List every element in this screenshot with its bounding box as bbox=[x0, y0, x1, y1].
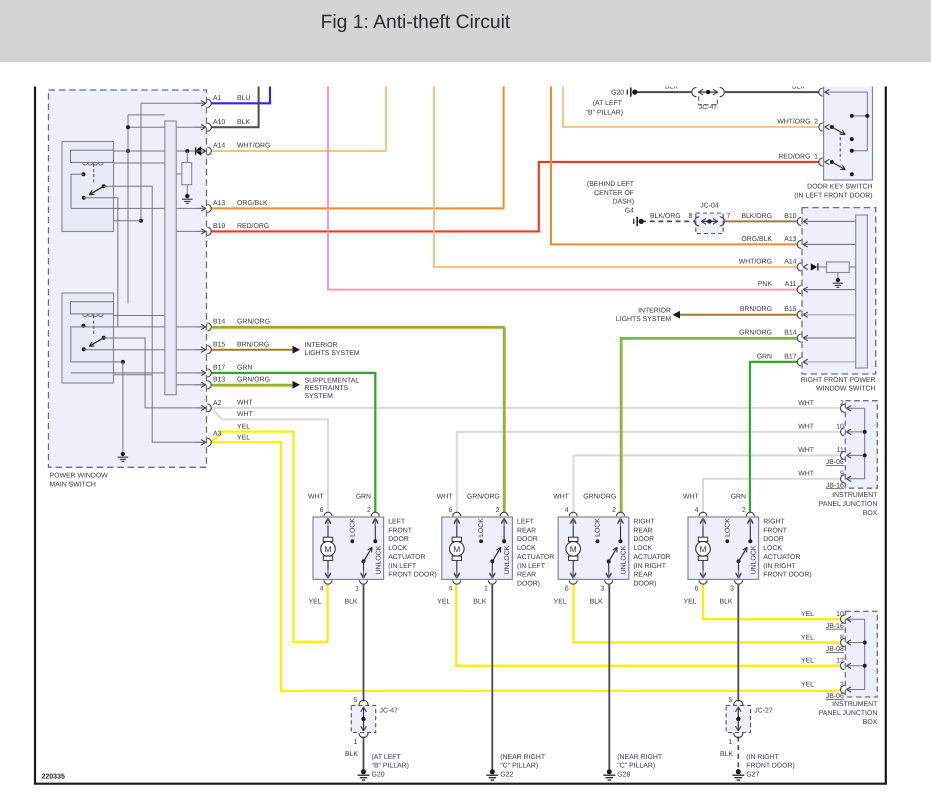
pin instrument panel junction box (upper) pin 10 bbox=[841, 428, 852, 436]
label wire YEL (A3 lower) bbox=[237, 434, 250, 441]
pin left front door lock actuator bottom right bbox=[360, 570, 368, 584]
motor M in left rear door lock actuator bbox=[450, 519, 465, 578]
labels pin A13 bbox=[741, 236, 796, 243]
svg-text:BRN/ORG: BRN/ORG bbox=[237, 341, 269, 348]
svg-text:REAR: REAR bbox=[633, 527, 652, 534]
pin right rear door lock actuator top right bbox=[617, 512, 625, 526]
label pin B19 bbox=[213, 223, 225, 230]
svg-text:A14: A14 bbox=[213, 143, 225, 150]
pin power window switch A14 bbox=[797, 263, 808, 271]
svg-text:WHT: WHT bbox=[308, 494, 324, 501]
wire ORG/BLK A13 exiting top bbox=[211, 85, 503, 208]
relay lower (door lock) in main switch bbox=[62, 293, 114, 383]
svg-text:BLK: BLK bbox=[720, 751, 733, 758]
svg-text:YEL: YEL bbox=[801, 681, 814, 688]
wire GRN B17 to left front actuator pin 2 bbox=[211, 373, 375, 512]
resistor in power window switch bbox=[827, 262, 856, 278]
svg-text:3: 3 bbox=[730, 586, 734, 593]
svg-text:(IN LEFT FRONT DOOR): (IN LEFT FRONT DOOR) bbox=[794, 192, 872, 199]
svg-text:GRN: GRN bbox=[356, 494, 371, 501]
svg-text:2: 2 bbox=[742, 507, 746, 514]
svg-text:B17: B17 bbox=[213, 365, 225, 372]
pin number labels left front door lock actuator bbox=[320, 507, 371, 593]
lock/unlock switch in right front door lock actuator bbox=[725, 519, 753, 578]
title bar bbox=[0, 0, 931, 62]
svg-text:BLK/ORG: BLK/ORG bbox=[650, 213, 681, 220]
pin number labels left rear door lock actuator bbox=[448, 507, 499, 593]
svg-text:G20: G20 bbox=[611, 90, 624, 97]
labels ground G28 bbox=[617, 754, 663, 779]
svg-text:(IN LEFT: (IN LEFT bbox=[517, 563, 546, 570]
svg-text:LOCK: LOCK bbox=[763, 545, 782, 552]
wire BLK A10 exiting top bbox=[211, 85, 258, 127]
label wire BLK bbox=[237, 119, 250, 126]
svg-text:PANEL JUNCTION: PANEL JUNCTION bbox=[819, 710, 878, 717]
svg-text:2: 2 bbox=[367, 507, 371, 514]
wire BLK JC-27 to ground G27 (dashed) bbox=[737, 737, 739, 770]
labels ground G22 bbox=[500, 754, 546, 779]
pin instrument panel junction box (lower) pin 8 bbox=[841, 639, 852, 647]
pin main switch A1 bbox=[196, 99, 212, 107]
label LOCK bbox=[478, 518, 485, 537]
svg-text:UNLOCK: UNLOCK bbox=[750, 545, 757, 574]
label pin B13 bbox=[213, 377, 225, 384]
power window switch internal lines bbox=[804, 221, 856, 362]
svg-text:ACTUATOR: ACTUATOR bbox=[763, 554, 800, 561]
pin right front door lock actuator top right bbox=[746, 512, 754, 526]
svg-text:YEL: YEL bbox=[801, 634, 814, 641]
svg-text:(IN LEFT: (IN LEFT bbox=[388, 563, 417, 570]
right front power window switch box bbox=[801, 208, 876, 393]
wire name labels right rear door lock actuator bbox=[553, 494, 616, 606]
instrument panel junction box (lower) internal bus bbox=[847, 619, 867, 689]
svg-text:BLK/ORG: BLK/ORG bbox=[741, 213, 772, 220]
arrow to interior lights system bbox=[293, 342, 360, 357]
label left rear door lock actuator name bbox=[517, 519, 554, 588]
svg-text:FRONT DOOR): FRONT DOOR) bbox=[763, 572, 812, 579]
internal bus bar of main switch bbox=[165, 121, 176, 395]
label wire ORG/BLK bbox=[237, 200, 268, 207]
svg-text:FRONT DOOR): FRONT DOOR) bbox=[746, 763, 795, 770]
svg-text:"B" PILLAR): "B" PILLAR) bbox=[586, 110, 623, 117]
wire YEL left rear actuator pin 4 to junction box pin 12 bbox=[456, 585, 840, 666]
pin door key switch pin 1 bbox=[819, 158, 830, 166]
wire BLK right front actuator pin 3 to JC-27 bbox=[737, 585, 739, 702]
svg-text:A2: A2 bbox=[213, 400, 222, 407]
label right front door lock actuator name bbox=[763, 519, 812, 579]
svg-text:1: 1 bbox=[355, 586, 359, 593]
svg-text:10: 10 bbox=[836, 424, 844, 431]
svg-text:PANEL JUNCTION: PANEL JUNCTION bbox=[819, 501, 878, 508]
pin right rear door lock actuator bottom right bbox=[605, 570, 613, 584]
svg-text:WHT: WHT bbox=[237, 400, 253, 407]
svg-text:FRONT: FRONT bbox=[763, 527, 788, 534]
left rear door lock actuator box bbox=[442, 517, 513, 579]
pin main switch A2 bbox=[196, 404, 212, 412]
svg-text:DOOR KEY SWITCH: DOOR KEY SWITCH bbox=[807, 184, 872, 191]
svg-text:A1: A1 bbox=[213, 95, 222, 102]
connector JC-47 (bottom) bbox=[351, 697, 398, 746]
svg-text:UNLOCK: UNLOCK bbox=[375, 545, 382, 574]
svg-text:JC-47: JC-47 bbox=[380, 708, 399, 715]
svg-text:WHT: WHT bbox=[683, 494, 699, 501]
svg-text:A3: A3 bbox=[213, 430, 222, 437]
svg-text:DOOR: DOOR bbox=[633, 536, 654, 543]
labels instrument panel junction box (lower) pin 12 bbox=[801, 658, 844, 665]
connector JC-47 (top) bbox=[692, 88, 724, 111]
svg-text:B14: B14 bbox=[213, 319, 225, 326]
svg-text:LOCK: LOCK bbox=[633, 545, 652, 552]
power window main switch box bbox=[49, 90, 207, 488]
label wire GRN/ORG bbox=[237, 319, 270, 326]
wire WHT/ORG from top to door key switch pin 2 bbox=[563, 85, 819, 127]
svg-text:M: M bbox=[570, 544, 577, 554]
svg-text:4: 4 bbox=[565, 507, 569, 514]
svg-text:FRONT: FRONT bbox=[388, 527, 413, 534]
ground G27 bbox=[732, 769, 744, 780]
pin right rear door lock actuator bottom left bbox=[569, 570, 577, 584]
svg-text:(IN RIGHT: (IN RIGHT bbox=[746, 754, 779, 761]
svg-text:INSTRUMENT: INSTRUMENT bbox=[832, 492, 878, 499]
svg-text:B15: B15 bbox=[213, 341, 225, 348]
svg-text:ACTUATOR: ACTUATOR bbox=[388, 554, 425, 561]
svg-text:6: 6 bbox=[565, 586, 569, 593]
svg-text:(BEHIND LEFT: (BEHIND LEFT bbox=[587, 181, 635, 188]
wire YEL right rear actuator pin 6 to junction box pin 8 bbox=[574, 585, 841, 643]
svg-text:GRN/ORG: GRN/ORG bbox=[237, 319, 270, 326]
svg-text:B17: B17 bbox=[784, 353, 796, 360]
instrument panel junction box (upper) internal bus bbox=[847, 408, 867, 479]
svg-text:A11: A11 bbox=[785, 281, 797, 288]
svg-text:RIGHT: RIGHT bbox=[763, 519, 785, 526]
svg-text:GRN/ORG: GRN/ORG bbox=[237, 377, 270, 384]
pin left rear door lock actuator bottom left bbox=[453, 570, 461, 584]
labels instrument panel junction box (upper) pin 10 bbox=[798, 424, 844, 431]
svg-text:A14: A14 bbox=[784, 258, 796, 265]
label wire YEL (A3 upper) bbox=[237, 423, 250, 430]
svg-text:JB-06: JB-06 bbox=[826, 693, 844, 700]
svg-text:GRN/ORG: GRN/ORG bbox=[467, 494, 500, 501]
svg-text:220335: 220335 bbox=[42, 774, 65, 781]
pin left front door lock actuator top right bbox=[371, 512, 379, 526]
label pin A10 bbox=[213, 119, 225, 126]
main switch internal wiring bbox=[71, 103, 207, 451]
ground G20 (bottom) bbox=[358, 769, 370, 780]
pin number labels right rear door lock actuator bbox=[565, 507, 616, 593]
pin main switch A10 bbox=[196, 123, 212, 131]
svg-text:BLU: BLU bbox=[237, 95, 250, 102]
labels instrument panel junction box (upper) pin 11 bbox=[798, 447, 844, 466]
svg-text:YEL: YEL bbox=[801, 658, 814, 665]
connector JC-04 bbox=[689, 202, 731, 233]
label LOCK bbox=[724, 518, 731, 537]
svg-text:PNK: PNK bbox=[758, 281, 773, 288]
ground inside main switch (resistor) bbox=[182, 194, 192, 204]
labels ground G27 bbox=[720, 751, 795, 779]
svg-text:3: 3 bbox=[600, 586, 604, 593]
svg-text:LOCK: LOCK bbox=[724, 518, 731, 537]
svg-text:G22: G22 bbox=[500, 771, 513, 778]
svg-text:GRN/ORG: GRN/ORG bbox=[583, 494, 616, 501]
svg-text:YEL: YEL bbox=[308, 599, 321, 606]
drawing frame border bbox=[35, 87, 886, 784]
svg-text:BOX: BOX bbox=[863, 510, 878, 517]
svg-text:1: 1 bbox=[814, 153, 818, 160]
pin power window switch B14 bbox=[797, 334, 808, 342]
pin power window switch B10 bbox=[797, 217, 808, 225]
pin power window switch B17 bbox=[797, 358, 808, 366]
svg-text:FRONT DOOR): FRONT DOOR) bbox=[388, 572, 437, 579]
label left front door lock actuator name bbox=[388, 519, 437, 579]
svg-text:LEFT: LEFT bbox=[388, 519, 406, 526]
label UNLOCK bbox=[750, 545, 757, 574]
svg-text:6: 6 bbox=[695, 586, 699, 593]
svg-text:YEL: YEL bbox=[437, 599, 450, 606]
wire name labels left front door lock actuator bbox=[308, 494, 371, 606]
svg-text:DOOR: DOOR bbox=[388, 536, 409, 543]
svg-text:1: 1 bbox=[484, 586, 488, 593]
svg-text:YEL: YEL bbox=[683, 599, 696, 606]
svg-text:BLK: BLK bbox=[590, 599, 603, 606]
wire BLK JC-47 to ground G20 bbox=[363, 737, 365, 770]
pin right front door lock actuator bottom right bbox=[735, 570, 743, 584]
svg-text:CENTER OF: CENTER OF bbox=[594, 190, 634, 197]
left front door lock actuator box bbox=[313, 517, 384, 579]
svg-text:2: 2 bbox=[496, 507, 500, 514]
svg-text:ACTUATOR: ACTUATOR bbox=[517, 554, 554, 561]
labels ground G20 bottom bbox=[345, 751, 409, 779]
label pin A14 bbox=[213, 143, 225, 150]
svg-text:JB-08: JB-08 bbox=[826, 646, 844, 653]
pin left front door lock actuator bottom left bbox=[324, 570, 332, 584]
label wire WHT (A2 lower) bbox=[237, 411, 253, 418]
label wire BLU bbox=[237, 95, 250, 102]
label pin A3 bbox=[213, 430, 222, 437]
svg-text:GRN: GRN bbox=[731, 494, 746, 501]
wire GRN/ORG right rear actuator pin 2 to power window switch B14 bbox=[621, 338, 799, 514]
connector JC-27 bbox=[726, 697, 773, 746]
lock/unlock switch in left front door lock actuator bbox=[350, 519, 378, 578]
svg-text:(IN RIGHT: (IN RIGHT bbox=[763, 563, 796, 570]
svg-text:LIGHTS SYSTEM: LIGHTS SYSTEM bbox=[616, 316, 671, 323]
arrow to interior lights system (right) bbox=[616, 307, 680, 323]
svg-text:G27: G27 bbox=[746, 771, 759, 778]
svg-text:ACTUATOR: ACTUATOR bbox=[633, 554, 670, 561]
svg-text:G20: G20 bbox=[372, 771, 385, 778]
svg-text:8: 8 bbox=[840, 634, 844, 641]
svg-text:RIGHT: RIGHT bbox=[633, 519, 655, 526]
svg-text:LOCK: LOCK bbox=[388, 545, 407, 552]
wire YEL right front actuator pin 6 to junction box pin 10 bbox=[703, 585, 841, 620]
door key switch box bbox=[794, 84, 872, 199]
svg-text:4: 4 bbox=[320, 586, 324, 593]
svg-text:"B" PILLAR): "B" PILLAR) bbox=[372, 763, 409, 770]
label pin A2 bbox=[213, 400, 222, 407]
svg-text:1: 1 bbox=[728, 739, 732, 746]
svg-text:DASH): DASH) bbox=[613, 199, 634, 206]
label LOCK bbox=[349, 518, 356, 537]
svg-text:WHT/ORG: WHT/ORG bbox=[237, 143, 270, 150]
pin instrument panel junction box (upper) pin 11 bbox=[841, 451, 852, 459]
wire BLK/ORG JC-04 to power window switch B10 bbox=[725, 220, 797, 222]
label wire RED/ORG bbox=[237, 223, 269, 230]
ground G20 (at left B pillar) bbox=[627, 88, 637, 97]
svg-text:M: M bbox=[325, 544, 332, 554]
svg-text:5: 5 bbox=[728, 697, 732, 704]
ground in power window switch bbox=[833, 278, 843, 288]
pin instrument panel junction box (lower) pin 12 bbox=[841, 662, 852, 670]
wire BLK/ORG G4 to JC-04 (dashed) bbox=[641, 220, 694, 222]
pin main switch B19 bbox=[196, 227, 212, 235]
wire WHT A2 to left front actuator pin 6 bbox=[211, 408, 328, 512]
svg-text:M: M bbox=[453, 544, 460, 554]
wire BLK left front actuator pin 1 to JC-47 bbox=[363, 585, 365, 702]
svg-text:GRN: GRN bbox=[757, 353, 772, 360]
svg-text:SYSTEM: SYSTEM bbox=[305, 393, 334, 400]
svg-text:MAIN SWITCH: MAIN SWITCH bbox=[50, 481, 96, 488]
svg-text:A10: A10 bbox=[213, 119, 225, 126]
label wire BRN/ORG bbox=[237, 341, 269, 348]
svg-text:WHT: WHT bbox=[237, 411, 253, 418]
wire RED/ORG B19 to door key switch pin 1 bbox=[211, 162, 819, 232]
svg-text:RED/ORG: RED/ORG bbox=[778, 153, 810, 160]
labels instrument panel junction box (lower) pin 8 bbox=[801, 634, 844, 653]
svg-text:DOOR): DOOR) bbox=[633, 580, 656, 587]
label LOCK bbox=[595, 518, 602, 537]
pin instrument panel junction box (upper) pin 9 bbox=[841, 475, 852, 483]
svg-text:B14: B14 bbox=[784, 329, 796, 336]
svg-text:INTERIOR: INTERIOR bbox=[305, 342, 338, 349]
label UNLOCK bbox=[375, 545, 382, 574]
wire WHT right rear actuator pin 4 to junction box pin 11 bbox=[574, 455, 841, 512]
wire YEL A3 to junction box pin 3 bbox=[211, 442, 840, 691]
svg-text:REAR: REAR bbox=[517, 572, 536, 579]
label wire GRN bbox=[237, 365, 252, 372]
svg-text:SUPPLEMENTAL: SUPPLEMENTAL bbox=[305, 377, 360, 384]
labels instrument panel junction box (lower) pin 10 bbox=[801, 611, 844, 630]
label wire WHT/ORG bbox=[237, 143, 270, 150]
svg-text:JB-16: JB-16 bbox=[826, 623, 844, 630]
instrument panel junction box (lower) box bbox=[819, 611, 878, 725]
svg-text:7: 7 bbox=[727, 213, 731, 220]
svg-text:RESTRAINTS: RESTRAINTS bbox=[305, 385, 349, 392]
diode at A14 in power window switch bbox=[811, 263, 827, 270]
wire BLU A1 exiting top bbox=[211, 85, 270, 103]
door key switch internals bbox=[824, 92, 870, 176]
pin power window switch B15 bbox=[797, 311, 808, 319]
svg-text:2: 2 bbox=[814, 118, 818, 125]
svg-text:3: 3 bbox=[840, 681, 844, 688]
svg-text:WHT/ORG: WHT/ORG bbox=[739, 258, 772, 265]
svg-text:BLK: BLK bbox=[237, 119, 250, 126]
svg-text:UNLOCK: UNLOCK bbox=[504, 545, 511, 574]
svg-text:WINDOW SWITCH: WINDOW SWITCH bbox=[816, 386, 875, 393]
right rear door lock actuator box bbox=[558, 517, 629, 579]
pin main switch B15 bbox=[196, 346, 212, 354]
label UNLOCK bbox=[621, 545, 628, 574]
wire BLK G20 to door key switch bbox=[635, 91, 691, 93]
labels instrument panel junction box (lower) pin 3 bbox=[801, 681, 844, 700]
pin number labels right front door lock actuator bbox=[695, 507, 746, 593]
svg-text:B15: B15 bbox=[784, 306, 796, 313]
svg-text:DOOR): DOOR) bbox=[517, 580, 540, 587]
motor M in right rear door lock actuator bbox=[566, 519, 581, 578]
wire BRN/ORG interior lights system to power window switch B15 bbox=[679, 314, 797, 316]
labels pin B14 bbox=[739, 329, 797, 336]
wire WHT left rear actuator pin 6 to junction box pin 10 bbox=[457, 432, 841, 512]
diode at A14 inside main switch bbox=[196, 147, 201, 155]
svg-text:(IN RIGHT: (IN RIGHT bbox=[633, 563, 666, 570]
svg-text:JB-16: JB-16 bbox=[826, 482, 844, 489]
motor M in right front door lock actuator bbox=[696, 519, 711, 578]
labels pin B17 bbox=[757, 353, 797, 360]
label wire GRN/ORG bbox=[237, 377, 270, 384]
svg-text:WHT: WHT bbox=[798, 424, 814, 431]
label right rear door lock actuator name bbox=[633, 519, 670, 588]
svg-text:WHT: WHT bbox=[437, 494, 453, 501]
svg-text:LOCK: LOCK bbox=[349, 518, 356, 537]
svg-text:JB-06: JB-06 bbox=[826, 459, 844, 466]
labels pin B15 bbox=[740, 306, 797, 313]
wire BLK JC-47 to door key switch pin bbox=[725, 91, 819, 93]
svg-text:INSTRUMENT: INSTRUMENT bbox=[832, 701, 878, 708]
svg-text:POWER WINDOW: POWER WINDOW bbox=[50, 473, 109, 480]
wire GRN/ORG B13 to supplemental restraints system bbox=[211, 385, 293, 386]
pin right rear door lock actuator top left bbox=[569, 512, 577, 526]
svg-text:10: 10 bbox=[836, 611, 844, 618]
wire name labels left rear door lock actuator bbox=[437, 494, 500, 606]
svg-text:BRN/ORG: BRN/ORG bbox=[740, 306, 772, 313]
pin instrument panel junction box (lower) pin 10 bbox=[841, 615, 852, 623]
wire BLK left rear actuator pin 1 to ground G22 bbox=[491, 585, 493, 770]
svg-text:WHT/ORG: WHT/ORG bbox=[777, 118, 810, 125]
svg-text:(AT LEFT: (AT LEFT bbox=[593, 100, 623, 107]
label pin B14 bbox=[213, 319, 225, 326]
labels instrument panel junction box (upper) pin 9 bbox=[798, 471, 844, 490]
labels pin B10 bbox=[741, 213, 796, 220]
svg-text:YEL: YEL bbox=[237, 434, 250, 441]
svg-text:ORG/BLK: ORG/BLK bbox=[741, 236, 772, 243]
svg-text:1: 1 bbox=[354, 739, 358, 746]
svg-text:(AT LEFT: (AT LEFT bbox=[372, 754, 402, 761]
pin main switch A13 bbox=[196, 204, 212, 212]
labels door key switch wires bbox=[777, 84, 818, 161]
svg-text:JC-27: JC-27 bbox=[754, 708, 773, 715]
wire name labels right front door lock actuator bbox=[683, 494, 746, 606]
svg-text:RED/ORG: RED/ORG bbox=[237, 223, 269, 230]
pin main switch A14 bbox=[196, 147, 212, 155]
wire WHT A2 to junction box pin 2 bbox=[211, 407, 840, 409]
svg-text:ORG/BLK: ORG/BLK bbox=[237, 200, 268, 207]
svg-text:B13: B13 bbox=[213, 377, 225, 384]
label pin B17 bbox=[213, 365, 225, 372]
pin power window switch A13 bbox=[797, 240, 808, 248]
svg-text:(NEAR RIGHT: (NEAR RIGHT bbox=[500, 754, 546, 761]
svg-text:"C" PILLAR): "C" PILLAR) bbox=[617, 763, 655, 770]
relay upper (window lock) in main switch bbox=[62, 142, 114, 232]
svg-text:GRN: GRN bbox=[237, 365, 252, 372]
right front door lock actuator box bbox=[688, 517, 759, 579]
pin right front door lock actuator top left bbox=[699, 512, 707, 526]
pin door key switch top pin bbox=[819, 88, 830, 96]
svg-text:12: 12 bbox=[836, 658, 844, 665]
resistor in main switch bbox=[176, 151, 192, 194]
svg-text:REAR: REAR bbox=[517, 527, 536, 534]
wire PNK from top to power window switch A11 bbox=[328, 85, 797, 290]
lock/unlock switch in left rear door lock actuator bbox=[479, 519, 507, 578]
svg-text:YEL: YEL bbox=[237, 423, 250, 430]
svg-text:11: 11 bbox=[837, 447, 844, 454]
